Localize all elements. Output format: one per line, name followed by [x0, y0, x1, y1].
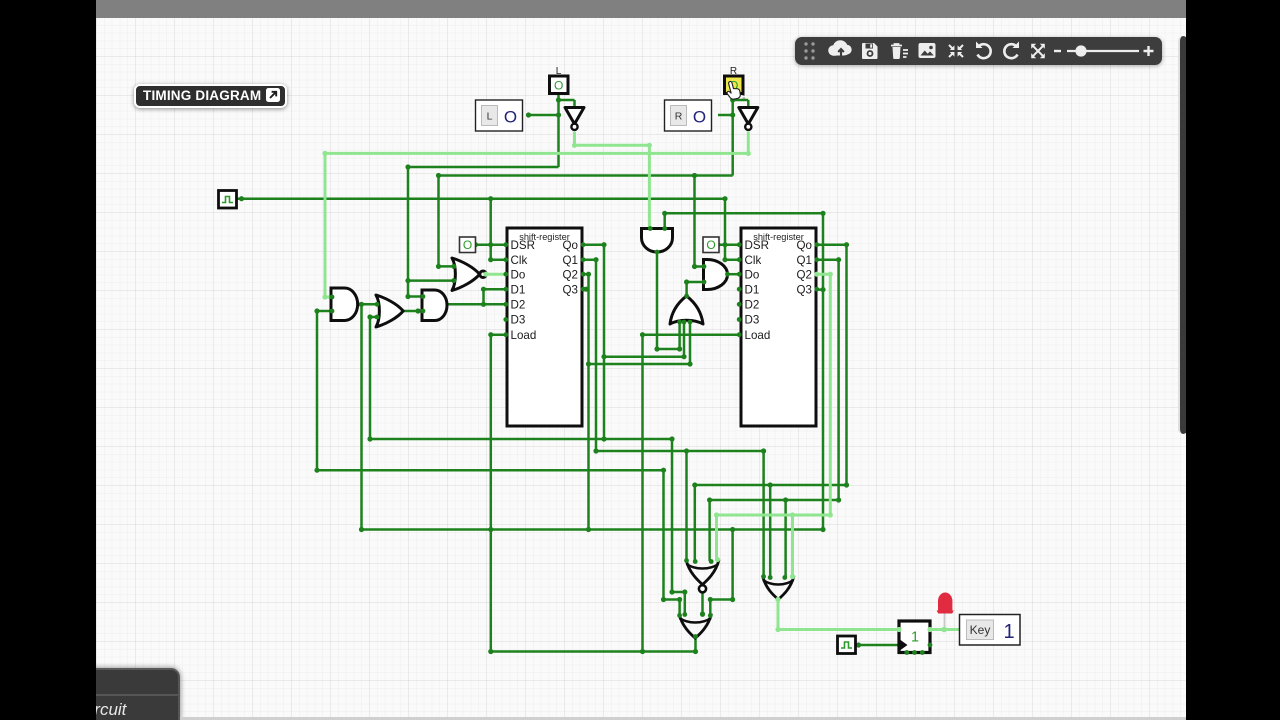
- OR gate O2 (middle, pointing up): [670, 296, 703, 324]
- wire net OR1 input2 / L1 bus: [367, 314, 687, 614]
- icon fullscreen expand: [1031, 44, 1045, 58]
- wire net R-inverted (light): [322, 132, 751, 300]
- wire net load/compare bus L7: [359, 211, 826, 616]
- AND gate A2 (left): [422, 290, 447, 321]
- svg-text:R: R: [675, 111, 683, 123]
- timing diagram button: [134, 84, 287, 108]
- icon fit to screen: [949, 45, 963, 57]
- svg-text:O: O: [554, 79, 563, 93]
- display D_R (R O): [665, 100, 712, 131]
- NOR gate N1: [452, 258, 486, 291]
- icon export image: [919, 43, 936, 58]
- svg-text:O: O: [693, 108, 706, 127]
- svg-text:D3: D3: [511, 314, 526, 327]
- svg-text:Do: Do: [745, 268, 760, 281]
- wire net Q3 of SR1 stub: [583, 287, 589, 292]
- wire net Q0 of SR2 / L4 bus: [692, 242, 849, 577]
- inverter U2 (under R): [739, 108, 758, 130]
- icon save floppy: [862, 43, 878, 59]
- svg-text:Do: Do: [511, 268, 526, 281]
- svg-text:DSR: DSR: [511, 239, 535, 252]
- wire net Q2 of SR1: [583, 272, 693, 530]
- svg-text:D3: D3: [745, 314, 760, 327]
- svg-text:Q3: Q3: [563, 283, 578, 296]
- zoom minus: [1054, 50, 1061, 52]
- svg-text:Q1: Q1: [563, 254, 578, 267]
- input switch R (highlighted, cursor): [724, 66, 745, 101]
- shift-register SR1: [507, 228, 582, 426]
- svg-text:Clk: Clk: [745, 254, 762, 267]
- AND gate A3 (middle top): [642, 229, 673, 253]
- wire net AND1 input2 / L3 bus: [314, 308, 682, 615]
- XOR gate X3 (bottom): [679, 614, 712, 639]
- wire net Q0 of SR1: [583, 242, 687, 442]
- svg-text:Key: Key: [970, 623, 991, 637]
- display D_L (L O): [476, 100, 523, 131]
- wire net gate2 output (light): [775, 600, 899, 633]
- clock source CLK1: [219, 191, 237, 209]
- svg-text:Qo: Qo: [563, 239, 578, 252]
- right side panel sliver: [1178, 36, 1188, 434]
- svg-text:O: O: [706, 238, 715, 252]
- wire net ORup output: [684, 279, 704, 296]
- wire net AND1 output: [355, 302, 377, 530]
- svg-text:Qo: Qo: [797, 239, 812, 252]
- clock source CLK2: [838, 636, 856, 654]
- bottom left panel: [80, 668, 180, 720]
- pin stub dots: [503, 242, 819, 337]
- wire net L: [405, 94, 574, 300]
- wire net clock2 to counter: [855, 642, 900, 647]
- svg-text:Q2: Q2: [797, 268, 812, 281]
- gate input endpoint dots: [330, 226, 796, 639]
- probe P2 (O): [703, 237, 719, 253]
- wire net Q2 of SR2 light / L6 bus: [714, 272, 833, 577]
- LED (red): [937, 593, 954, 633]
- wire net AND2 output to D1,D2: [443, 287, 507, 307]
- wire net Q1 of SR1 / L2 bus: [583, 257, 766, 576]
- icon delete trash: [891, 44, 908, 59]
- wire net gate1 bubble to gate3: [700, 591, 705, 617]
- svg-text:Q3: Q3: [797, 283, 812, 296]
- wire net OR1 output: [398, 308, 423, 313]
- AND gate A4 (D-shape, middle): [704, 260, 728, 290]
- wire clock line: [237, 196, 742, 262]
- wire net DAND output: [728, 273, 742, 276]
- counter register box (1): [896, 621, 932, 655]
- svg-text:DSR: DSR: [745, 239, 769, 252]
- probe P1 (O): [460, 237, 476, 253]
- svg-text:D1: D1: [745, 283, 760, 296]
- zoom slider: [1067, 50, 1139, 52]
- wire net NOR output (light): [485, 273, 507, 276]
- svg-text:D2: D2: [511, 298, 526, 311]
- wire DSR1 wire: [473, 242, 507, 247]
- wire DSR2 wire: [715, 242, 741, 247]
- svg-text:D2: D2: [745, 298, 760, 311]
- wire net midAND output: [654, 252, 682, 352]
- svg-text:Load: Load: [511, 329, 537, 342]
- svg-text:L: L: [487, 111, 493, 123]
- XOR gate X2 (bottom right): [763, 576, 795, 600]
- OR gate O1 (left): [376, 295, 403, 327]
- icon cloud upload: [828, 40, 851, 56]
- svg-text:Q1: Q1: [797, 254, 812, 267]
- wire net counter to key (light): [930, 628, 960, 631]
- AND gate A1 (left): [331, 288, 358, 321]
- toolbar drag handle: [804, 42, 807, 45]
- icon undo: [976, 42, 991, 59]
- inverter U1 (under L): [565, 108, 584, 130]
- svg-text:1: 1: [911, 630, 919, 646]
- icon redo: [1004, 42, 1019, 59]
- toolbar: [795, 37, 1162, 65]
- wire net Q1 of SR2 / L5 bus: [707, 257, 841, 577]
- wire net load: [488, 332, 741, 654]
- key display box: [960, 615, 1021, 646]
- svg-text:O: O: [504, 108, 517, 127]
- zoom plus: [1144, 46, 1154, 56]
- shift-register SR2: [741, 228, 816, 426]
- wire net L-inverted (light): [572, 132, 652, 229]
- svg-text:D1: D1: [511, 283, 526, 296]
- svg-text:Clk: Clk: [511, 254, 528, 267]
- XNOR gate X1 (bottom): [686, 560, 719, 593]
- svg-text:O: O: [463, 238, 472, 252]
- svg-text:Load: Load: [745, 329, 771, 342]
- wire net R: [436, 94, 748, 270]
- svg-text:1: 1: [1003, 621, 1014, 643]
- svg-text:Q2: Q2: [563, 268, 578, 281]
- input switch L: [550, 66, 569, 94]
